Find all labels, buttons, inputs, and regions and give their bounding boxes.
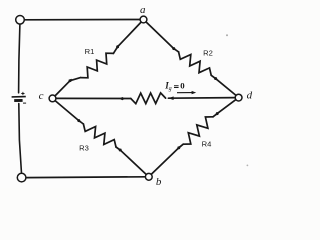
wire branch a-c (R1 to node a) [113, 22, 141, 53]
wire branch c-d (middle resistor to node d) [168, 97, 235, 100]
current arrow on branch c-b near c [77, 119, 81, 122]
svg-text:0: 0 [180, 81, 185, 91]
wire branch d-b (node d lead) [217, 100, 236, 114]
svg-text:R1: R1 [85, 47, 95, 56]
resistor R3 [83, 124, 116, 147]
svg-text:R4: R4 [202, 140, 212, 149]
wire branch a-d (node a lead) [146, 22, 174, 49]
current arrow on branch d-b near b [177, 146, 181, 150]
wire branch c-d (node c to middle resistor) [56, 97, 131, 99]
svg-text:b: b [156, 176, 162, 188]
node d [235, 94, 242, 101]
current arrow on branch c-d (left, pointing right) [119, 97, 125, 100]
wire branch c-b (lead into R3) [79, 121, 84, 124]
label Ig = 0 [164, 81, 185, 93]
battery V (long positive plate) [12, 96, 26, 98]
Wheatstone bridge circuit schematic [0, 0, 258, 188]
svg-text:R3: R3 [79, 144, 89, 153]
resistor R4 [183, 117, 213, 144]
wire left upper (top terminal to battery +) [19, 24, 20, 93]
wire branch d-b (R4 to node b) [151, 144, 183, 174]
wire branch a-d (R2 to node d) [211, 75, 236, 95]
paper background [0, 0, 258, 188]
current arrow on branch c-b near b [118, 148, 122, 152]
galvanometer branch resistor G [131, 93, 166, 104]
current arrow on branch a-d near d [214, 77, 218, 80]
battery + polarity label [21, 92, 24, 95]
wire branch c-b (node c lead) [55, 101, 79, 121]
svg-text:c: c [39, 90, 44, 102]
svg-text:d: d [247, 90, 253, 102]
wire branch c-b (R3 to node b) [116, 147, 146, 175]
battery - polarity label [23, 102, 26, 104]
terminal top-left [16, 15, 25, 24]
wire left lower (battery - to bottom terminal) [19, 104, 22, 174]
current arrow on branch d-b near d [215, 112, 219, 115]
resistor R2 [179, 52, 212, 75]
node a [140, 16, 147, 23]
current arrow on branch c-d (right, pointing left) [168, 96, 173, 100]
battery V (short negative plate) [14, 99, 22, 102]
node b [145, 173, 152, 180]
current arrow on branch a-c near a [116, 45, 119, 50]
resistor R1 [81, 53, 114, 78]
wire branch a-d (lead into R2) [174, 49, 179, 52]
current arrow on branch a-d near a [172, 47, 176, 50]
terminal bottom-left [17, 173, 26, 182]
svg-text:a: a [140, 4, 146, 16]
wire branch d-b (lead into R4) [213, 114, 217, 117]
wire top (positive terminal to node a) [24, 19, 140, 21]
node c [49, 95, 56, 102]
current direction arrow for Ig [177, 92, 193, 94]
wire bottom (bottom terminal to node b) [26, 176, 145, 179]
svg-text:R2: R2 [203, 49, 213, 58]
wire branch a-c (lead into R1) [70, 78, 81, 81]
svg-text:g: g [169, 86, 172, 92]
current arrow on branch a-c near c [68, 79, 72, 83]
wire branch a-c (node c lead) [55, 81, 70, 96]
